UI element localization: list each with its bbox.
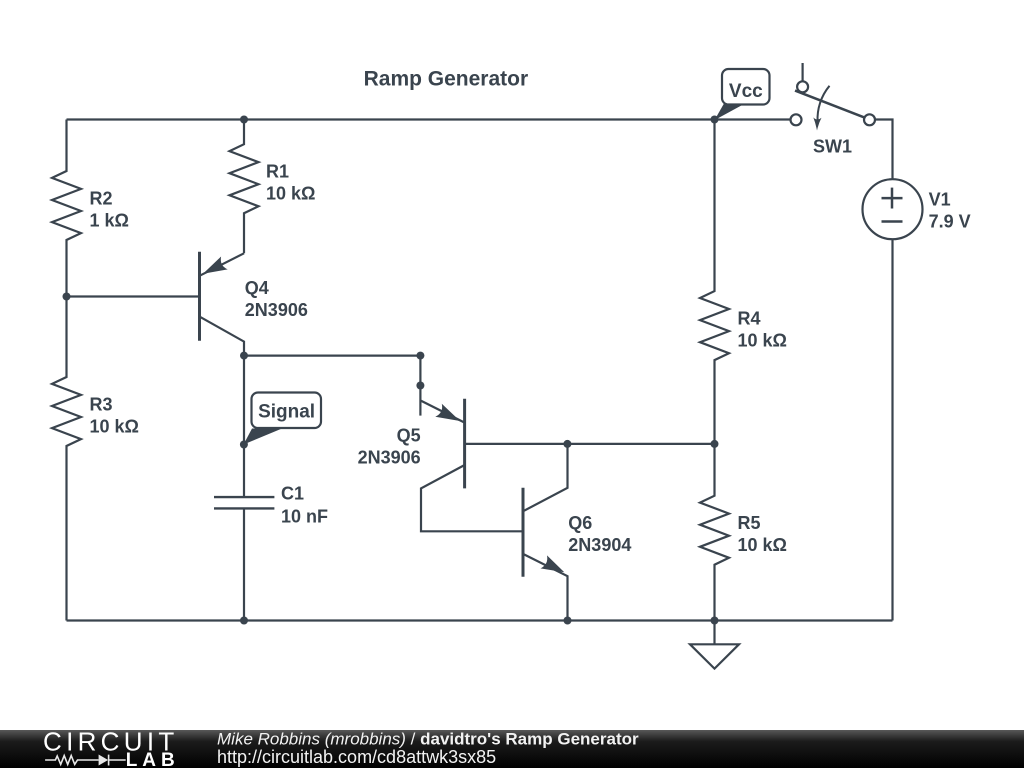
svg-text:Q6: Q6 xyxy=(568,513,592,533)
svg-text:V1: V1 xyxy=(929,189,951,209)
svg-text:Signal: Signal xyxy=(258,402,315,423)
svg-text:Q4: Q4 xyxy=(245,278,269,298)
svg-text:1 kΩ: 1 kΩ xyxy=(90,211,129,231)
svg-text:R5: R5 xyxy=(738,513,761,533)
svg-text:10 kΩ: 10 kΩ xyxy=(738,535,787,555)
svg-text:R1: R1 xyxy=(266,162,289,182)
svg-text:R2: R2 xyxy=(90,189,113,209)
svg-text:10 kΩ: 10 kΩ xyxy=(738,331,787,351)
svg-text:R4: R4 xyxy=(738,309,761,329)
svg-text:2N3906: 2N3906 xyxy=(245,300,308,320)
svg-text:2N3904: 2N3904 xyxy=(568,535,631,555)
svg-text:SW1: SW1 xyxy=(813,137,852,157)
svg-text:Mike Robbins (mrobbins) / davi: Mike Robbins (mrobbins) / davidtro's Ram… xyxy=(217,730,639,749)
svg-text:http://circuitlab.com/cd8attwk: http://circuitlab.com/cd8attwk3sx85 xyxy=(217,747,496,767)
svg-text:Ramp Generator: Ramp Generator xyxy=(364,68,529,91)
svg-text:Vcc: Vcc xyxy=(729,81,763,102)
svg-text:10 nF: 10 nF xyxy=(281,507,328,527)
svg-text:Q5: Q5 xyxy=(397,425,421,445)
svg-text:C1: C1 xyxy=(281,484,304,504)
svg-text:LAB: LAB xyxy=(126,750,180,768)
svg-text:2N3906: 2N3906 xyxy=(358,447,421,467)
svg-text:7.9 V: 7.9 V xyxy=(929,211,971,231)
svg-text:10 kΩ: 10 kΩ xyxy=(90,417,139,437)
svg-text:R3: R3 xyxy=(90,395,113,415)
svg-text:10 kΩ: 10 kΩ xyxy=(266,184,315,204)
